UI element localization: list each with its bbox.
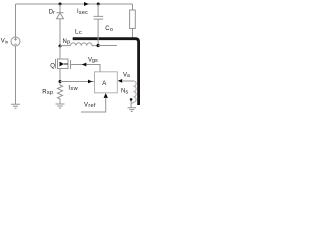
wire source <box>59 69 61 82</box>
wire top rail <box>16 3 133 5</box>
svg-text:Np: Np <box>63 39 71 46</box>
wire Ns to ground <box>130 101 132 108</box>
svg-text:Isw: Isw <box>68 85 78 92</box>
svg-text:Lc: Lc <box>75 29 82 36</box>
arrow Vref <box>104 93 108 98</box>
svg-text:Dr: Dr <box>49 9 55 16</box>
wire drain <box>59 46 61 59</box>
polarity dot Ns <box>130 98 133 101</box>
transistor Q <box>55 59 57 69</box>
ground (Ns) <box>128 108 137 112</box>
diode Dr <box>59 4 61 13</box>
node dot source <box>59 80 62 83</box>
resistor Rsp <box>58 83 63 104</box>
wire load bottom <box>132 29 134 39</box>
source Vin <box>11 37 20 46</box>
svg-text:Vref: Vref <box>84 102 96 109</box>
svg-text:Rsp: Rsp <box>42 89 53 96</box>
wire Isw <box>60 81 95 83</box>
wire gate <box>71 65 101 72</box>
inductor Np <box>71 43 99 46</box>
wire Vin top <box>15 4 17 37</box>
wire to primary <box>60 45 71 47</box>
block A <box>95 72 118 93</box>
node dot switching <box>59 45 62 48</box>
ground (Vin) <box>11 104 20 108</box>
svg-text:Isec: Isec <box>77 9 88 16</box>
wire to load <box>132 4 134 10</box>
wire Va <box>122 80 133 82</box>
svg-text:Vgs: Vgs <box>88 57 98 64</box>
winding Ns <box>131 81 136 103</box>
wire Vin bottom <box>15 46 17 104</box>
core Lc <box>73 39 139 105</box>
node dot top-mid <box>97 3 100 6</box>
svg-text:Ns: Ns <box>121 89 128 96</box>
capacitor Co <box>97 4 99 16</box>
node dot top-left <box>59 3 62 6</box>
svg-text:Va: Va <box>123 72 130 79</box>
svg-text:Co: Co <box>105 26 113 33</box>
svg-text:Q: Q <box>50 64 55 70</box>
svg-text:Vin: Vin <box>1 39 9 45</box>
arrow Va <box>118 79 123 83</box>
ground (Rsp) <box>56 104 65 108</box>
wire sense stub <box>98 45 117 47</box>
resistor load <box>130 10 136 29</box>
arrow Vgs <box>82 63 87 67</box>
wire Vref <box>81 98 106 112</box>
arrow Isec <box>84 2 89 6</box>
node dot primary-right <box>97 44 100 47</box>
arrow Isw <box>88 80 92 84</box>
svg-text:A: A <box>102 81 106 87</box>
